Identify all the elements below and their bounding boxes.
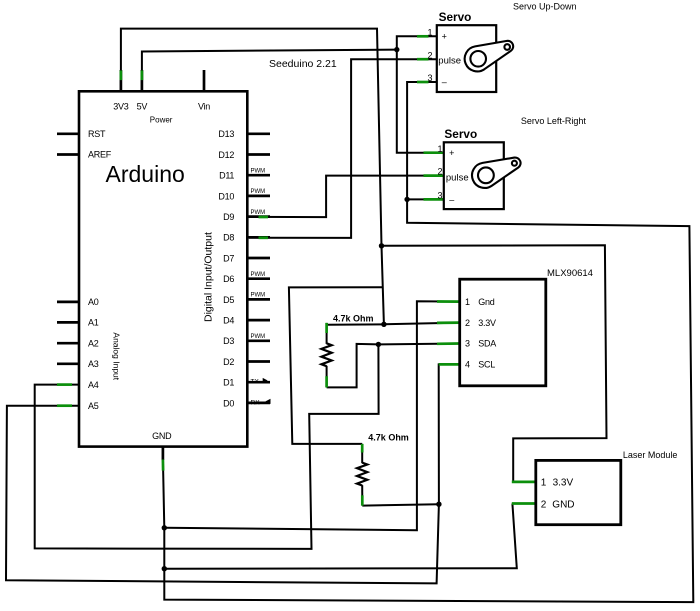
svg-text:1: 1 [438,144,443,154]
svg-text:RST: RST [88,129,106,139]
svg-text:Servo Left-Right: Servo Left-Right [521,116,587,126]
pin A3 stub [57,362,79,365]
wire servo1 pin3 ground drop [407,82,437,199]
pin D13 stub [247,132,270,135]
svg-text:Gnd: Gnd [478,297,495,307]
svg-text:D3: D3 [223,336,234,346]
wire ground junction to laser pin2 GND [164,504,517,569]
pin D1 stub [247,381,270,384]
svg-text:AREF: AREF [88,150,112,160]
svg-text:SCL: SCL [478,360,495,370]
svg-text:PWM: PWM [251,189,266,195]
svg-text:PWM: PWM [251,334,266,340]
green terminal MLX pin3 [437,342,460,345]
svg-text:Vin: Vin [198,102,210,112]
green terminal laser pin2 [512,502,536,505]
svg-text:–: – [442,77,447,87]
svg-text:Analog Input: Analog Input [112,332,122,380]
svg-text:TX: TX [251,378,260,385]
MLX90614 sensor body [460,279,546,386]
node ground junction 2 [162,566,167,571]
green terminal 5V [141,70,144,80]
pin D12 stub [247,153,270,156]
wire 3.3V branch to resistor R2 top [289,287,382,444]
svg-text:1: 1 [541,477,547,488]
green terminal servo1 pin2 [417,58,429,61]
svg-text:–: – [449,194,454,204]
svg-text:3: 3 [465,339,470,349]
pin D10 stub [247,195,270,198]
svg-text:3V3: 3V3 [113,101,129,111]
pin D9 stub [247,215,270,218]
svg-text:Servo: Servo [444,127,477,141]
svg-text:3: 3 [438,191,443,201]
svg-text:D0: D0 [223,398,234,408]
svg-text:Digital Input/Output: Digital Input/Output [202,232,214,322]
green terminal D8 [259,236,269,239]
svg-text:D4: D4 [223,316,234,326]
wire resistor R2 bottom to SCL junction [362,504,439,505]
svg-text:A3: A3 [88,359,99,369]
pin 3V3 stub [120,70,123,91]
svg-text:A2: A2 [88,338,99,348]
svg-text:A0: A0 [88,297,99,307]
green terminal servo2 pin3 [424,198,444,201]
pin D2 stub [247,360,270,363]
svg-text:D10: D10 [218,191,234,201]
wire 5V net: 5V pin up, across to servo junction [142,50,397,80]
pin D5 stub [247,298,270,301]
wire GND pin down to ground junctions [163,458,164,569]
servo M1 (Servo Up-Down) body [437,25,496,92]
svg-text:D12: D12 [218,150,234,160]
green terminal servo2 pin1 [424,151,444,154]
svg-text:PWM: PWM [251,272,266,278]
resistor R2 4.7k Ohm (SCL pullup) [357,444,367,506]
svg-text:5V: 5V [137,102,148,112]
green terminal servo1 pin3 [417,81,429,84]
wire MLX pin4 SCL down through junction to pin A5 [6,364,461,583]
pin D11 stub [247,174,270,177]
svg-text:D8: D8 [223,233,234,243]
servo M2 (Servo Left-Right) body [444,142,504,209]
node SCL junction [436,502,441,507]
node 3.3V rail junction B [381,322,386,327]
svg-text:PWM: PWM [251,210,266,216]
pin AREF stub [57,153,79,156]
svg-text:PWM: PWM [251,293,266,299]
pin D0 stub [247,402,270,405]
green terminal MLX pin4 [439,363,460,366]
green terminal D9 [259,216,269,219]
green terminal A5 [57,404,72,407]
pin D4 stub [247,319,270,322]
pin D6 stub [247,277,270,280]
svg-text:Servo Up-Down: Servo Up-Down [513,2,577,12]
node SDA junction [376,342,381,347]
pin D7 stub [247,257,270,260]
svg-text:2: 2 [465,318,470,328]
pin Vin stub [203,70,206,91]
pin A1 stub [57,321,79,324]
wire servo2 pin3 ground [407,198,444,200]
svg-text:D7: D7 [223,253,234,263]
svg-text:D13: D13 [218,129,234,139]
pin GND stub [162,447,165,460]
svg-text:3: 3 [428,73,433,83]
wire 3.3V rail to laser pin1 [382,245,607,482]
pin RST stub [57,132,79,135]
svg-text:SDA: SDA [478,339,496,349]
servo M1 horn icon [465,41,514,72]
svg-text:Laser Module: Laser Module [623,450,678,460]
laser module body [536,460,621,524]
svg-text:D11: D11 [219,171,234,181]
wire resistor R1 bottom to SDA line [327,344,461,388]
pin A2 stub [57,342,79,345]
node 5V servo junction [394,47,399,52]
pin D3 stub [247,339,270,342]
svg-text:4: 4 [465,360,470,370]
wire D9 to servo2 pulse [249,176,444,218]
svg-text:Servo: Servo [439,10,472,24]
svg-text:D9: D9 [223,212,234,222]
green terminal 3V3 [120,70,123,80]
svg-text:D1: D1 [223,378,234,388]
svg-text:1: 1 [428,27,433,37]
wire 5V to servo2 pin1 [397,50,445,153]
wire D8 to servo1 pulse [249,59,437,238]
svg-text:GND: GND [152,431,172,441]
green terminal MLX pin1 [437,300,460,303]
Arduino U1 board outline [79,91,247,446]
wire servo grounds to right side rail [164,199,693,602]
svg-text:D6: D6 [223,274,234,284]
svg-text:A5: A5 [88,401,99,411]
svg-text:Power: Power [150,115,173,124]
svg-text:+: + [449,148,454,158]
pin D8 stub [247,236,270,239]
wire ground junction to MLX pin1 Gnd [164,301,461,530]
green terminal A4 [57,383,72,386]
svg-text:3.3V: 3.3V [553,477,574,488]
svg-text:MLX90614: MLX90614 [547,268,593,279]
green terminal laser pin1 [512,481,536,484]
servo M2 horn icon [472,158,521,188]
svg-text:2: 2 [438,167,443,177]
node servo ground junction [404,197,409,202]
wire SDA junction down-around to pin A4 [35,344,379,549]
svg-text:pulse: pulse [446,172,469,183]
resistor R1 4.7k Ohm (SDA pullup) [321,323,331,388]
wire 3V3 net: 3V3 pin up, across, down to 3.3V rail dots [121,29,384,325]
svg-text:A4: A4 [88,380,99,390]
svg-text:PWM: PWM [251,169,266,175]
green terminal MLX pin2 [437,321,460,324]
pin A0 stub [57,301,79,304]
svg-text:4.7k Ohm: 4.7k Ohm [333,314,374,324]
pin 5V stub [141,70,144,91]
svg-text:Seeduino 2.21: Seeduino 2.21 [269,58,337,70]
svg-text:2: 2 [428,50,433,60]
green terminal GND [162,460,165,471]
svg-text:1: 1 [465,297,470,307]
svg-text:2: 2 [541,499,547,510]
svg-text:4.7k Ohm: 4.7k Ohm [368,432,409,442]
svg-text:Arduino: Arduino [106,161,185,187]
svg-text:GND: GND [552,499,574,510]
svg-text:D2: D2 [223,357,234,367]
wire 5V to servo1 pin1 [397,36,437,49]
node 3.3V rail junction A [379,243,384,248]
svg-text:RX: RX [251,399,261,406]
svg-text:+: + [442,31,447,41]
svg-text:pulse: pulse [438,56,461,67]
svg-text:D5: D5 [223,295,234,305]
svg-text:A1: A1 [88,318,99,328]
wire resistor R1 top to 3.3V dot and MLX pin2 [327,323,461,325]
green terminal servo2 pin2 [424,174,444,177]
node ground junction 1 [162,525,167,530]
green terminal servo1 pin1 [417,35,429,38]
svg-text:3.3V: 3.3V [478,318,496,328]
